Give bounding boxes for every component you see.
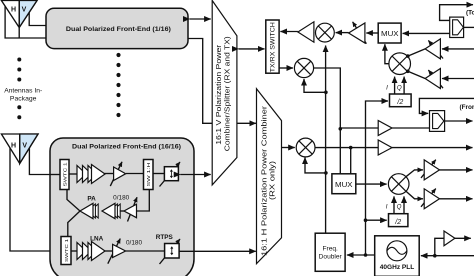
mixer RX V bbox=[294, 58, 313, 77]
mixer RX H bbox=[296, 138, 315, 157]
svg-text:RTPS: RTPS bbox=[156, 234, 174, 241]
svg-text:Q: Q bbox=[397, 85, 402, 92]
amplifier chain row1 bbox=[77, 165, 105, 184]
amplifier ref buffer bbox=[444, 231, 455, 246]
wire H-IF down into MUX2 bbox=[350, 148, 352, 174]
mux MUX2 bbox=[332, 174, 356, 194]
front-end FE1 (1/16) bbox=[46, 8, 188, 48]
svg-text:MUX: MUX bbox=[335, 180, 353, 189]
ellipsis dots middle column bbox=[116, 53, 120, 117]
svg-text:Dual Polarized Front-End (1/16: Dual Polarized Front-End (1/16) bbox=[66, 26, 171, 33]
VGA row2 bbox=[124, 197, 137, 221]
divider /2 TX bbox=[390, 94, 412, 107]
svg-text:0/180: 0/180 bbox=[126, 240, 143, 246]
svg-text:TX/RX SWITCH: TX/RX SWITCH bbox=[270, 22, 277, 72]
antenna 2 feeds bbox=[10, 148, 61, 252]
divider /2 RX bbox=[389, 214, 408, 227]
wire FE1 V-pol double arrow to V combiner bbox=[190, 18, 211, 20]
wire buffer1 to balun RX bbox=[392, 127, 430, 129]
svg-text:SWTC 1: SWTC 1 bbox=[62, 162, 68, 186]
node diagonal dots TX bbox=[406, 54, 410, 73]
block 40GHz PLL bbox=[375, 236, 420, 276]
svg-text:Combiner/Splitter (RX and TX): Combiner/Splitter (RX and TX) bbox=[223, 36, 232, 151]
svg-text:Doubler: Doubler bbox=[319, 254, 343, 261]
mixer TX V bbox=[316, 23, 335, 42]
wire LO to /2 RX bbox=[366, 219, 387, 221]
mux MUX1 bbox=[378, 23, 401, 43]
wire RX Q out bbox=[440, 198, 473, 200]
node LO junction B bbox=[324, 171, 328, 175]
switch TX/RX SWITCH bbox=[266, 20, 279, 73]
svg-text:SW 1:H: SW 1:H bbox=[146, 162, 152, 187]
svg-text:(To: (To bbox=[466, 10, 474, 17]
balun RX bbox=[430, 111, 445, 132]
wire row2 to switch B bbox=[137, 190, 150, 212]
VGA row3 bbox=[108, 239, 126, 264]
amplifier buffer H IF bbox=[378, 140, 392, 155]
wire FE1 H-pol to H combiner (passes behind V combiner) bbox=[188, 39, 250, 124]
wire ref out bbox=[455, 237, 471, 239]
wire TX I input from right edge bbox=[442, 48, 474, 50]
wire TX amp to switch bbox=[280, 31, 298, 33]
svg-text:I: I bbox=[386, 85, 388, 92]
svg-text:Q: Q bbox=[397, 204, 402, 211]
wires I Q arrows into RX IQ mixer bbox=[393, 196, 395, 213]
svg-text:40GHz PLL: 40GHz PLL bbox=[380, 264, 415, 271]
wire PLL to doubler bbox=[347, 254, 375, 256]
node H-IF junction bbox=[349, 146, 353, 150]
svg-text:I: I bbox=[386, 204, 388, 211]
antenna ANT1 bbox=[1, 1, 37, 28]
wire MUX1 to VGA bbox=[366, 32, 378, 34]
wire balun RX out bbox=[445, 120, 473, 122]
wire diagonals to RX I/Q VGAs bbox=[406, 170, 416, 177]
VGA TX bbox=[349, 22, 367, 44]
svg-text:16:1 V Polarization Power: 16:1 V Polarization Power bbox=[214, 44, 223, 145]
wire to buffer1 bbox=[340, 127, 378, 129]
wire MUX2 to RX IQ mixer bbox=[356, 183, 387, 185]
switch SW 1:H (row1) bbox=[144, 160, 154, 190]
svg-text:Antennas In-: Antennas In- bbox=[4, 88, 42, 95]
wire balun to MUX1 bbox=[403, 32, 450, 34]
svg-text:/2: /2 bbox=[394, 219, 401, 226]
labels LNA 0/180 RTPS bbox=[90, 234, 173, 247]
wire From input to balun bbox=[419, 98, 474, 113]
wire TX Q input from right edge bbox=[442, 78, 474, 80]
mixer RX IQ demod bbox=[388, 174, 409, 195]
labels PA 0/180 bbox=[87, 195, 130, 202]
node LO junction A bbox=[324, 91, 328, 95]
antenna ANT16 bbox=[1, 134, 38, 164]
svg-text:V: V bbox=[22, 143, 27, 150]
antenna 1 feeds bbox=[5, 5, 46, 39]
LNA amp chain row3 bbox=[77, 242, 105, 261]
FE16 row3 wires bbox=[71, 250, 165, 252]
wire LO main vertical (doubler up to TX mixer) bbox=[325, 92, 327, 233]
node ref junction bbox=[433, 254, 437, 258]
svg-text:(RX only): (RX only) bbox=[267, 161, 276, 200]
wire buffer2 out to right edge bbox=[392, 147, 473, 149]
svg-text:PA: PA bbox=[87, 195, 96, 202]
double arrow V combiner to TX/RX switch bbox=[239, 48, 265, 50]
svg-text:H: H bbox=[11, 143, 16, 150]
svg-text:MUX: MUX bbox=[381, 29, 399, 38]
wire FE16 H out to H combiner bbox=[179, 250, 256, 252]
svg-text:0/180: 0/180 bbox=[113, 195, 130, 201]
ellipsis dots left column bbox=[17, 58, 21, 120]
VGA TX I bbox=[425, 39, 443, 59]
switch SWTC1 (row3) bbox=[61, 237, 71, 265]
antenna ANT1 labels H V bbox=[11, 7, 27, 14]
combiner H trapezoid bbox=[257, 89, 282, 264]
wire RX V IF out bbox=[314, 68, 341, 129]
wire RX I out bbox=[440, 169, 473, 171]
VGA TX Q bbox=[425, 69, 443, 89]
wire balun out right bbox=[464, 26, 474, 28]
wire balun to top edge (To ...) bbox=[440, 5, 466, 21]
VGA row1 bbox=[110, 162, 125, 186]
svg-text:(From: (From bbox=[460, 104, 474, 111]
block Freq. Doubler bbox=[315, 233, 345, 271]
svg-text:SWTC 1: SWTC 1 bbox=[64, 239, 70, 262]
wire mixer to MUX1 bottom bbox=[385, 49, 389, 64]
wire LO branch to RX H mixer bbox=[305, 161, 326, 173]
balun TX top-right bbox=[450, 17, 464, 37]
phase shifter square row1 bbox=[160, 162, 181, 187]
wire TX VGA to mixer bbox=[336, 32, 349, 34]
front-end FE16 (16/16) bbox=[50, 138, 194, 276]
combiner V trapezoid bbox=[212, 1, 237, 185]
PA amp 2 bbox=[102, 203, 120, 218]
amplifier buffer V IF bbox=[378, 121, 392, 136]
phase shifter RTPS square row3 bbox=[160, 239, 181, 264]
double arrow FE16 V-pol to V combiner bbox=[180, 174, 210, 176]
wire diagonals to TX I/Q VGAs bbox=[408, 49, 425, 56]
wire LO branch to RX V mixer bbox=[304, 82, 326, 92]
wire V-IF down into MUX2 bbox=[339, 129, 341, 174]
label Antennas In-Package bbox=[4, 88, 42, 103]
wire RX V: switch to mixer bbox=[279, 67, 293, 69]
wire LO to /2 TX bbox=[366, 101, 381, 255]
amplifier TX driver bbox=[298, 22, 314, 42]
switch SWTC1 (row1) bbox=[60, 160, 69, 190]
antenna ANT16 labels H V bbox=[11, 143, 27, 150]
VGA RX I bbox=[421, 160, 440, 180]
wire RX H IF to buffer2 bbox=[315, 147, 378, 149]
node PLL output junction bbox=[364, 253, 368, 257]
svg-text:V: V bbox=[22, 7, 27, 14]
svg-text:H: H bbox=[11, 7, 16, 14]
VGA RX Q bbox=[421, 189, 440, 209]
svg-text:Package: Package bbox=[10, 95, 37, 102]
PA bracket to switches bbox=[67, 190, 80, 237]
PA amp 1 bbox=[80, 203, 98, 218]
mixer TX IQ modulator bbox=[389, 53, 411, 75]
FE16 row1 wires bbox=[50, 174, 164, 175]
wire H combiner out to RX H mixer bbox=[282, 147, 295, 149]
wire ref to buffer bbox=[435, 238, 444, 255]
wire ref in from right edge to PLL bbox=[421, 255, 474, 257]
svg-text:Dual Polarized Front-End (16/1: Dual Polarized Front-End (16/16) bbox=[72, 143, 181, 150]
node LO2 junction bbox=[364, 218, 368, 222]
wires I Q arrows into TX IQ mixer bbox=[394, 77, 396, 94]
wire bbox=[120, 210, 124, 212]
svg-text:/2: /2 bbox=[396, 99, 403, 106]
node dot bbox=[339, 127, 343, 131]
svg-text:LNA: LNA bbox=[90, 235, 104, 242]
svg-text:Freq.: Freq. bbox=[323, 246, 339, 253]
